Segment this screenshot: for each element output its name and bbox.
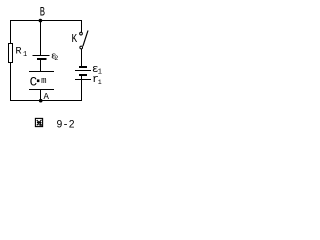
svg-text:m: m <box>41 76 46 86</box>
svg-text:R: R <box>15 45 21 57</box>
wire bottom <box>10 100 82 102</box>
svg-text:1: 1 <box>23 51 27 59</box>
charged particle dot <box>37 79 40 82</box>
svg-text:9-2: 9-2 <box>56 119 74 131</box>
node A dot <box>39 99 43 103</box>
switch K blade <box>83 31 88 47</box>
switch K bottom contact <box>80 46 83 49</box>
battery E1 top short thick plate <box>75 67 91 80</box>
wire battery2 to capacitor <box>40 60 42 72</box>
svg-text:K: K <box>72 32 78 46</box>
svg-text:C: C <box>30 76 38 90</box>
resistor R1 <box>9 44 13 63</box>
battery E2 short thick plate <box>37 58 47 60</box>
capacitor C bottom plate <box>29 89 54 91</box>
battery E1 long plate 1 <box>75 70 91 72</box>
battery E1 short thick plate 2 <box>79 74 87 76</box>
wire left lower <box>10 62 12 101</box>
wire top <box>10 20 82 22</box>
battery E2 long plate <box>33 56 50 60</box>
wire middle upper <box>40 20 42 56</box>
wire switch to battery <box>81 49 83 66</box>
wire capacitor to node A <box>40 90 42 102</box>
wire right upper <box>81 20 83 32</box>
caption figure character tu <box>35 118 42 126</box>
svg-text:2: 2 <box>54 55 58 63</box>
wire left upper <box>10 20 12 44</box>
battery E1 long plate 2 <box>75 79 91 81</box>
node B dot <box>39 19 43 23</box>
svg-text:1: 1 <box>98 79 102 86</box>
switch K top contact <box>80 32 83 35</box>
wire battery to bottom <box>81 76 83 101</box>
svg-text:B: B <box>40 5 46 19</box>
capacitor C top plate <box>29 71 54 73</box>
svg-text:A: A <box>44 92 50 102</box>
